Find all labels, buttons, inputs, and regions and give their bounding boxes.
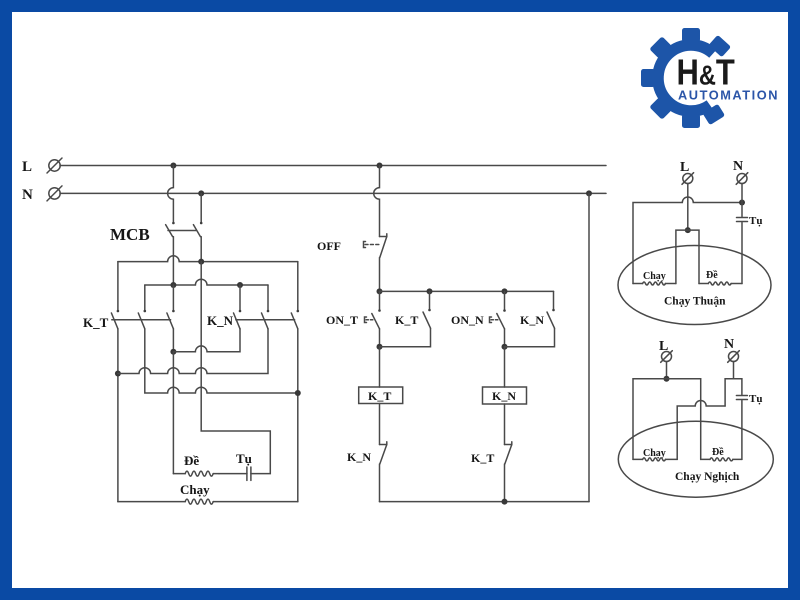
capacitor Tu thuan [737, 217, 748, 219]
node L source terminal [49, 160, 60, 171]
svg-text:Tụ: Tụ [236, 451, 252, 466]
junction L to control rail [377, 163, 383, 169]
node N source terminal [49, 188, 60, 199]
junction N vert [739, 200, 745, 206]
junction node B [170, 349, 176, 355]
terminal N nghich [729, 352, 739, 362]
svg-text:Đề: Đề [706, 270, 718, 281]
svg-text:N: N [22, 187, 33, 203]
wire MCB pole2 down to top feed line [200, 237, 202, 262]
motor ellipse Chay Thuan [618, 246, 771, 325]
wire contact K_N1 top tick [239, 285, 241, 311]
junction N to control right rail [586, 190, 592, 196]
wire control bottom line [380, 501, 590, 503]
wire rail x6 top tick [297, 262, 299, 311]
wire L top line to Chay-left and De-left [633, 379, 701, 460]
winding De nghich [701, 458, 710, 460]
motor ellipse Chay Nghich [618, 421, 773, 497]
junction node D [502, 344, 508, 350]
K_N 3-pole mechanical link [236, 319, 295, 321]
svg-text:K_T: K_T [395, 313, 418, 327]
wire contact K_T3 bottom to node B [172, 329, 174, 352]
junction node C [377, 344, 383, 350]
svg-text:N: N [724, 337, 734, 352]
wire L bus [60, 165, 606, 167]
wire L to MCB pole1 with hop over N bus [168, 166, 174, 223]
contact K_N1 [239, 310, 242, 313]
svg-text:AUTOMATION: AUTOMATION [678, 88, 779, 103]
wire rail x1 lower [117, 329, 119, 502]
terminal L nghich [662, 352, 672, 362]
wire L down to pi node [687, 184, 689, 231]
wire L nghich down [666, 362, 668, 379]
wire N bus [60, 192, 606, 194]
wire capacitor to De right nghich [741, 401, 743, 460]
terminal L thuan [683, 174, 693, 184]
junction node A pole1 on feed line y285 [170, 282, 176, 288]
coil K_N box [483, 387, 527, 404]
contact K_N interlock (NC) [380, 442, 387, 464]
wire NC K_T to bottom line [504, 464, 506, 502]
contact K_T3 [172, 310, 175, 313]
svg-text:L: L [680, 160, 689, 175]
wire pi shape to windings [676, 230, 699, 283]
wire K_T aux bottom to node C [380, 328, 431, 347]
contact K_N aux (NO) [552, 309, 555, 312]
wire node B to contact K_N1 bottom with hop [173, 329, 240, 352]
junction L nghich [664, 376, 670, 382]
MCB mechanical link [168, 230, 196, 232]
winding De thuan [699, 283, 708, 285]
breaker MCB pole 1 [172, 222, 175, 225]
wire contact K_N2 top tick [267, 285, 269, 311]
K_T 3-pole mechanical link [112, 319, 171, 321]
capacitor Tu nghich [736, 395, 747, 397]
svg-text:K_T: K_T [83, 315, 109, 330]
junction N to MCB pole2 [198, 190, 204, 196]
svg-text:Tụ: Tụ [749, 393, 762, 405]
svg-text:OFF: OFF [317, 239, 341, 253]
svg-text:Chạy: Chạy [180, 482, 210, 497]
svg-text:K_N: K_N [520, 313, 544, 327]
junction K_T aux top [427, 288, 433, 294]
wire ON_T bottom to node [379, 329, 381, 347]
junction pole2 on feed line y261 [198, 259, 204, 265]
contact K_T interlock (NC) [505, 442, 512, 464]
svg-text:K_N: K_N [207, 313, 234, 328]
junction pi node [685, 227, 691, 233]
logo text H&T [677, 53, 736, 93]
wire pole2 vertical down and over to capacitor [201, 262, 270, 474]
wire coil K_N to NC K_T [504, 404, 506, 445]
svg-text:K_N: K_N [492, 389, 516, 403]
wire control right rail [588, 193, 590, 501]
contact K_T1 [117, 310, 120, 313]
wire top feed line y261 (N side) [118, 256, 298, 262]
wire MCB pole1 down to node A [172, 237, 174, 285]
svg-text:Chạy Thuận: Chạy Thuận [664, 296, 726, 308]
wire capacitor to De right [741, 223, 743, 284]
junction rail x1 at y373 [115, 371, 121, 377]
winding Chay (run) with bottom wire [118, 501, 185, 503]
wire contact K_T2 top tick [144, 285, 146, 311]
wire contact K_T2 bottom to rail x6 y393 with hops [145, 329, 298, 393]
winding De (start) [173, 473, 185, 475]
junction branch node T [377, 288, 383, 294]
svg-text:Đề: Đề [712, 447, 724, 458]
wire ON_N top tick [504, 291, 506, 310]
contact K_T aux (NO) [428, 309, 431, 312]
svg-text:Chạy Nghịch: Chạy Nghịch [675, 471, 740, 483]
svg-text:K_N: K_N [347, 450, 371, 464]
wire node B down to De winding [172, 352, 174, 474]
wire N to capacitor [741, 184, 743, 217]
svg-text:Đề: Đề [184, 453, 199, 468]
svg-text:Chạy: Chạy [643, 271, 666, 282]
wire K_N aux top tick [553, 291, 555, 310]
svg-text:MCB: MCB [110, 225, 150, 244]
wire cross line to Chay-right with hop [677, 401, 725, 460]
wire rail x1 top tick [117, 262, 119, 311]
svg-text:K_T: K_T [471, 451, 494, 465]
wire control left rail with hop over N bus [374, 166, 380, 237]
wire N-to-Chay-left line with hop over L [633, 197, 742, 283]
wire K_N aux bottom to node D [505, 328, 555, 347]
wire ON_T top tick [379, 291, 381, 310]
pushbutton ON_N (NO) [503, 309, 506, 312]
wire second feed line y285 (L side) [145, 279, 268, 285]
junction feed of contact K_N1 on y285 [237, 282, 243, 288]
wire contact K_T3 top tick [172, 285, 174, 311]
wire contact K_N2 bottom to rail x1 y373 with hops [118, 329, 268, 374]
wire ON_N bottom to node D [504, 329, 506, 347]
junction node D bottom [502, 499, 508, 505]
svg-text:N: N [733, 159, 743, 174]
wire OFF to branch node [379, 258, 381, 292]
junction rail x6 at y393 [295, 390, 301, 396]
wire rail x6 lower [297, 329, 299, 502]
winding Chay thuan [633, 283, 643, 285]
wire K_T aux top tick [429, 291, 431, 310]
svg-text:Tụ: Tụ [749, 215, 762, 227]
contact K_N3 [297, 310, 300, 313]
contact K_T2 [144, 310, 147, 313]
breaker MCB pole 2 [200, 222, 203, 225]
junction branch node N [502, 288, 508, 294]
svg-text:L: L [22, 159, 32, 175]
coil K_T box [359, 387, 403, 404]
svg-text:K_T: K_T [368, 389, 391, 403]
wire coil K_T to NC K_N [379, 404, 381, 445]
terminal N thuan [737, 174, 747, 184]
svg-text:ON_N: ON_N [451, 313, 484, 327]
wire node D to coil K_N [504, 347, 506, 387]
pushbutton ON_T (NO) [378, 309, 381, 312]
wire branch top line y291 [380, 290, 554, 292]
logo gear [641, 28, 731, 128]
contact K_N2 [267, 310, 270, 313]
capacitor Tu [219, 473, 247, 475]
svg-text:ON_T: ON_T [326, 313, 358, 327]
svg-text:Chạy: Chạy [643, 448, 666, 459]
pushbutton OFF (NC) [380, 234, 387, 258]
wire N to MCB pole2 [200, 193, 202, 222]
junction L to MCB pole1 [170, 163, 176, 169]
winding Chay nghich [633, 458, 643, 460]
wire node C to coil K_T [379, 347, 381, 387]
wire NC K_N to bottom line [379, 464, 381, 502]
wire N nghich down [733, 362, 735, 379]
wire N top segment [725, 379, 742, 406]
